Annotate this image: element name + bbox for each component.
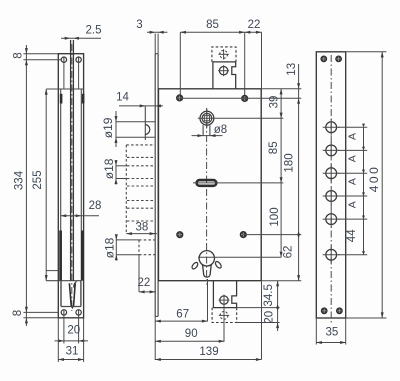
case top edge	[46, 88, 83, 90]
svg-text:90: 90	[185, 328, 198, 340]
lock case rectangle	[159, 89, 262, 281]
dim 14 dimension line	[119, 105, 163, 107]
cover plate outline	[316, 52, 345, 318]
knob hole inner circle	[202, 113, 212, 123]
hidden hole dash row 3 (o18 bottom)	[127, 178, 155, 180]
case top extension line	[261, 88, 301, 90]
svg-text:85: 85	[206, 19, 219, 31]
latch bolt nose bump	[145, 124, 150, 134]
case outline behind faceplate - left wall	[60, 89, 62, 281]
dim o18 upper extension lines	[116, 165, 127, 167]
dim 35 dimension line	[316, 342, 345, 344]
svg-text:38: 38	[136, 221, 149, 233]
svg-text:20: 20	[264, 311, 276, 324]
dim 67 extension line	[207, 279, 209, 322]
bottom hidden box dashed	[212, 308, 237, 323]
dim line 39-85-100	[280, 89, 282, 257]
dim 3 dimension line	[147, 31, 168, 33]
lower hidden hole dash row top	[139, 239, 155, 241]
dim 400 dimension line	[381, 52, 383, 318]
dim line A spacings	[363, 127, 365, 255]
svg-text:8: 8	[13, 52, 25, 58]
case screw top-left	[177, 95, 183, 101]
dim 85 extension line left	[179, 32, 181, 94]
hidden case dashed left edge	[125, 145, 127, 233]
follower extension line	[193, 182, 283, 184]
short line left of plate	[47, 270, 59, 272]
dim 31 dimension line	[58, 359, 83, 361]
case wall thick segment bottom-left	[59, 231, 62, 281]
faceplate edge front line	[154, 54, 156, 317]
svg-text:34.5: 34.5	[263, 284, 275, 306]
lower hidden hole dashed left edge	[138, 240, 140, 255]
latch spring arc	[74, 282, 77, 288]
knob stem right line	[209, 125, 211, 135]
screw top-right of faceplate	[76, 57, 81, 62]
case screw bottom-right	[240, 232, 246, 238]
dim line 13-180-62	[298, 64, 300, 281]
dim 3 extension lines	[154, 34, 156, 54]
o19 hole top edge	[116, 121, 156, 123]
svg-text:3: 3	[136, 19, 142, 31]
latch stem left line	[70, 40, 72, 281]
dim line 34.5-20	[277, 281, 279, 331]
dim 35 extension lines	[315, 318, 317, 345]
centerline of faceplate	[71, 44, 73, 311]
hidden hole dash row 2 (o18 top)	[127, 165, 155, 167]
dim 334 and 8 dimension line	[25, 45, 27, 326]
dim 139 dimension line	[155, 359, 261, 361]
svg-text:28: 28	[89, 200, 102, 212]
dim 20 dimension line	[55, 340, 89, 342]
top screw extension line	[180, 97, 302, 99]
case bottom extension line	[261, 280, 301, 282]
dim 85 extension line right	[244, 32, 246, 95]
svg-text:39: 39	[269, 96, 281, 109]
svg-text:ø19: ø19	[101, 117, 115, 138]
case wall thick segment bottom-right	[81, 231, 84, 281]
dim 20 extension lines	[63, 316, 65, 344]
screw top-left of faceplate	[61, 57, 66, 62]
knob stem left line	[202, 125, 204, 135]
svg-text:139: 139	[199, 346, 218, 358]
dim o18 lower extension lines	[116, 239, 139, 241]
dim 90 extension line	[223, 300, 225, 342]
svg-text:67: 67	[176, 308, 189, 320]
top hidden box dashed	[212, 47, 236, 62]
cover plate hole 4	[326, 191, 337, 202]
svg-text:44: 44	[346, 229, 358, 242]
dim 2.5 dimension line	[61, 37, 101, 39]
cylinder wing left	[191, 261, 199, 270]
svg-text:22: 22	[248, 19, 261, 31]
svg-text:180: 180	[284, 153, 296, 172]
line from top screws to case top - right	[78, 63, 80, 90]
top hidden screw crosshair	[223, 49, 225, 59]
cover screw top-left	[321, 56, 327, 62]
svg-text:35: 35	[326, 327, 339, 339]
dim o19 extension ticks	[115, 111, 117, 147]
hole 6 extension line	[338, 254, 367, 256]
dim 8 bottom extension lines	[23, 311, 58, 313]
cylinder wing right	[214, 261, 222, 270]
dim 255 dimension line	[45, 89, 47, 281]
dim 38 dimension line	[126, 233, 157, 235]
top tab screw	[219, 67, 227, 75]
dim o18 upper dimension line	[115, 160, 117, 185]
dim 85-22 dimension line	[180, 31, 261, 33]
tab bottom extension line	[237, 307, 280, 309]
svg-text:400: 400	[367, 165, 381, 193]
case wall thick segment top-left	[60, 94, 63, 104]
cover screw bottom-left	[321, 308, 327, 314]
hidden hole dash row 6	[127, 207, 155, 209]
case outline behind faceplate - right wall	[80, 89, 82, 281]
bottom case pocket left line	[60, 281, 62, 307]
svg-text:20: 20	[67, 325, 80, 337]
svg-text:A: A	[347, 201, 359, 208]
svg-text:13: 13	[286, 63, 298, 76]
svg-text:8: 8	[12, 310, 24, 316]
cylinder circle	[199, 251, 214, 266]
hidden hole dash row 5	[127, 200, 155, 202]
svg-text:85: 85	[268, 141, 280, 154]
svg-text:31: 31	[66, 346, 79, 358]
dim 31 extension lines	[57, 318, 59, 362]
cover screw top-right	[336, 56, 342, 62]
dim o18 lower dimension line	[115, 235, 117, 261]
bottom tab screw	[220, 296, 228, 304]
latch spring shape at bottom	[69, 283, 75, 307]
faceplate lower extension line	[154, 316, 156, 360]
lower hidden hole dash row bottom	[139, 254, 155, 256]
hidden hole dash row 7	[127, 220, 155, 222]
long extension line right of case	[261, 32, 263, 359]
knob square spindle	[204, 116, 209, 121]
svg-text:22: 22	[138, 277, 151, 289]
hole 4 extension line	[338, 195, 367, 197]
o19 hole bottom edge	[116, 136, 156, 138]
knob vertical crosshair	[206, 109, 208, 128]
svg-text:62: 62	[283, 246, 295, 259]
dim 90 dimension line	[155, 340, 224, 342]
case bottom edge	[46, 280, 81, 282]
latch stem right line	[72, 40, 74, 281]
case wall thick segment top-right	[82, 94, 85, 104]
bottom hidden screw crosshair	[223, 310, 225, 320]
screw bottom-left of faceplate	[61, 310, 66, 315]
svg-text:A: A	[347, 133, 359, 140]
case screw bottom-left	[177, 232, 183, 238]
svg-text:A: A	[347, 178, 359, 185]
knob center extension line	[198, 117, 283, 119]
line from top screws to case top - left	[63, 63, 65, 90]
svg-text:14: 14	[116, 92, 129, 104]
faceplate edge bottom cap	[155, 315, 158, 317]
cover plate hole 3	[326, 168, 337, 179]
dim 22 extension line	[138, 255, 140, 292]
hole 2 extension line	[338, 149, 367, 151]
cover screw bottom-right	[337, 308, 343, 314]
bottom screw extension line	[243, 234, 301, 236]
svg-text:2.5: 2.5	[86, 25, 102, 37]
hole 1 extension line	[338, 126, 367, 128]
cover plate hole 2	[326, 145, 337, 156]
bottom mounting tab	[213, 281, 236, 308]
cover plate centerline	[330, 55, 332, 323]
hidden case dashed top edge	[126, 144, 155, 146]
case screw top-right	[242, 95, 248, 101]
svg-text:ø18: ø18	[103, 237, 117, 258]
faceplate front view outline	[58, 54, 83, 318]
follower slot	[197, 180, 217, 186]
vertical centerline of middle view	[206, 108, 208, 285]
dim 28 dimension line	[61, 215, 99, 217]
svg-text:ø8: ø8	[214, 124, 227, 136]
svg-text:100: 100	[269, 207, 281, 226]
latch bolt edge line	[144, 106, 146, 140]
faceplate edge top cap	[155, 53, 158, 55]
hole 5 extension line	[338, 218, 367, 220]
dim 8 top extension lines	[23, 53, 58, 55]
dim 400 extension lines	[346, 51, 387, 53]
cylinder center extension line	[198, 256, 281, 258]
hole 3 extension line	[338, 172, 367, 174]
cover plate hole 5	[326, 214, 337, 225]
cylinder keyway stem	[203, 265, 212, 277]
hidden box bottom extension line	[237, 322, 280, 324]
svg-text:A: A	[347, 155, 359, 162]
faceplate edge back line	[157, 54, 159, 317]
cover plate hole 1	[326, 122, 337, 133]
screw bottom-right of faceplate	[76, 310, 81, 315]
hidden hole dash row 1	[127, 156, 155, 158]
knob hole outer circle	[200, 111, 214, 125]
bottom case pocket bottom edge	[61, 306, 81, 308]
svg-text:334: 334	[13, 170, 25, 190]
cover plate hole 6	[326, 249, 337, 260]
top mounting tab	[213, 62, 236, 89]
svg-text:255: 255	[32, 170, 44, 189]
hidden hole dash row 4	[127, 185, 155, 187]
dim 22 dimension line	[139, 291, 156, 293]
bottom case pocket right line	[80, 281, 82, 307]
svg-text:ø18: ø18	[102, 158, 116, 179]
dim 67 dimension line	[155, 320, 207, 322]
dim o8 dimension line	[192, 135, 223, 137]
